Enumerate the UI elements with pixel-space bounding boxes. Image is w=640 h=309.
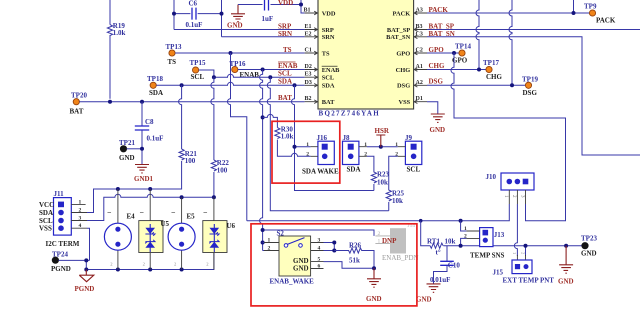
resistor R21 (with SDA term rail): [87, 85, 184, 212]
svg-text:C10: C10: [448, 262, 461, 270]
pin numbers J11: [79, 199, 82, 229]
pin designators U1 right: [416, 8, 423, 103]
junction rail1/E4: [116, 187, 120, 191]
svg-text:4: 4: [318, 246, 321, 252]
junction CHG: [477, 68, 481, 72]
svg-text:5: 5: [318, 257, 321, 263]
svg-text:J13: J13: [494, 231, 505, 239]
svg-text:SDA: SDA: [322, 83, 335, 90]
svg-text:1: 1: [364, 142, 367, 148]
value R26 51k: [349, 242, 362, 265]
wire J11 pin4 to PGND rail: [87, 228, 90, 260]
svg-text:2: 2: [268, 246, 271, 252]
wire SCL drop to R25: [267, 77, 388, 211]
wire SDA drop to J16: [292, 85, 374, 190]
wire TS drop to temp network: [228, 53, 247, 221]
junction TP23 ground: [564, 244, 568, 248]
wire BAT row: [79, 101, 304, 103]
wire ENAB drop to S2: [260, 70, 263, 251]
svg-text:SCL: SCL: [39, 217, 53, 225]
switch S2 (ENAB_WAKE): [277, 229, 311, 276]
svg-text:PGND: PGND: [75, 285, 95, 293]
junction C6 left: [172, 12, 176, 16]
junction S2 pin4: [332, 249, 336, 253]
wire SCL row: [214, 74, 305, 77]
svg-text:100: 100: [185, 157, 196, 165]
svg-text:C6: C6: [189, 0, 198, 8]
svg-text:GPO: GPO: [396, 50, 410, 57]
junction PGND rail left: [84, 268, 88, 272]
wire J15 pin2 riser: [525, 246, 527, 256]
pin numbers J16: [306, 142, 309, 158]
wire BAT_SP row: [427, 29, 640, 31]
wire TP15 jog: [199, 70, 214, 77]
junction SDA drop: [293, 83, 297, 87]
svg-text:GND: GND: [430, 126, 446, 134]
wire S2 pin5 to ground: [324, 262, 375, 269]
wire ENAB row: [238, 69, 305, 71]
value R30 1.0k: [281, 125, 294, 140]
ground GND (S2): [366, 268, 382, 303]
svg-text:TS: TS: [283, 46, 292, 54]
svg-text:TP21: TP21: [119, 139, 135, 147]
svg-text:E5: E5: [187, 213, 196, 221]
svg-text:E1: E1: [305, 24, 312, 30]
junction ENAB drop: [261, 68, 265, 72]
svg-text:TP13: TP13: [166, 43, 182, 51]
svg-text:2: 2: [364, 152, 367, 158]
svg-text:1: 1: [464, 226, 467, 232]
testpoint TP16 (ENAB): [230, 60, 260, 79]
svg-text:SCL: SCL: [407, 165, 421, 173]
svg-text:GND1: GND1: [134, 175, 154, 183]
svg-text:TP14: TP14: [455, 42, 471, 50]
svg-text:BAT: BAT: [278, 94, 292, 102]
pin numbers J13: [464, 226, 467, 239]
junction RT1 tap: [419, 219, 423, 223]
testpoint TP23 (GND): [581, 235, 597, 258]
wire CHG riser (from top): [476, 0, 479, 70]
wire S2 pin1: [263, 242, 266, 244]
svg-text:GND: GND: [558, 278, 574, 286]
svg-text:1.0k: 1.0k: [281, 133, 294, 141]
svg-text:R25: R25: [392, 189, 405, 197]
svg-text:10k: 10k: [445, 237, 456, 245]
svg-text:1: 1: [395, 142, 398, 148]
svg-text:1uF: 1uF: [262, 15, 274, 23]
pin marks E4/U5/E5/U6: [110, 262, 209, 267]
svg-text:–: –: [139, 208, 144, 216]
connector J15 (EXT TEMP): [493, 255, 533, 276]
svg-text:TP16: TP16: [230, 60, 246, 68]
svg-text:VSS: VSS: [39, 225, 52, 233]
wire SRN: [222, 36, 305, 38]
svg-text:TS: TS: [322, 50, 330, 57]
junction J16 pin1 / SDA drop: [293, 145, 297, 149]
wire PGND rail: [86, 253, 214, 270]
pin stubs J13: [466, 231, 479, 238]
junction C6 right: [220, 12, 224, 16]
ground GND (TP23): [558, 246, 574, 286]
svg-text:A3: A3: [416, 8, 423, 14]
svg-text:3: 3: [79, 216, 82, 222]
svg-text:B2: B2: [305, 96, 312, 102]
svg-text:2: 2: [79, 208, 82, 214]
svg-text:TP20: TP20: [71, 91, 87, 99]
svg-text:BAT_SP: BAT_SP: [387, 27, 410, 34]
svg-text:–: –: [203, 208, 208, 216]
value R22 100: [217, 159, 230, 175]
wire ENAB to DNP pin2: [263, 230, 374, 236]
junction J13 pin1: [459, 219, 463, 223]
svg-text:0.01uF: 0.01uF: [430, 276, 450, 284]
testpoint TP9 (PACK): [584, 2, 616, 24]
wire DSG riser (from top): [509, 0, 512, 85]
highlight box SDA WAKE: [272, 121, 340, 183]
wire S2 pin3/pin4 tie: [324, 243, 335, 251]
pin stubs U1 left: [305, 13, 318, 102]
wire DSG row: [427, 84, 525, 86]
pin numbers J8: [364, 142, 367, 158]
svg-text:C2: C2: [416, 48, 423, 54]
svg-text:RT1: RT1: [427, 237, 440, 245]
resistor R25: [386, 156, 398, 211]
junction DSG: [510, 83, 514, 87]
wire TS row: [175, 52, 305, 54]
svg-text:0.1uF: 0.1uF: [147, 135, 164, 143]
junction PGND/E5: [180, 268, 184, 272]
wire J13 pin1: [461, 221, 467, 231]
svg-text:SRN: SRN: [278, 30, 292, 38]
svg-text:1: 1: [268, 238, 271, 244]
testpoint TP13 (TS): [166, 43, 182, 66]
junction TP24/PGND stem: [84, 258, 88, 262]
svg-text:VCC: VCC: [39, 201, 54, 209]
pin stubs S2: [264, 243, 324, 269]
value R25 10k: [392, 189, 405, 205]
capacitor C8: [135, 102, 164, 165]
svg-text:C1: C1: [305, 48, 312, 54]
junction rail1/U5: [148, 187, 152, 191]
wire RT1 row to TP23: [443, 245, 582, 247]
wire J16 pin1: [295, 146, 311, 148]
svg-text:SRN: SRN: [322, 34, 335, 41]
svg-text:GND: GND: [581, 249, 597, 257]
svg-text:R26: R26: [349, 242, 362, 250]
ground GND (C10): [416, 284, 441, 304]
connector J8 (SDA): [343, 134, 359, 164]
wire SDA row: [156, 82, 304, 85]
junction C8/TP21: [140, 147, 144, 151]
J11 side labels: [39, 201, 54, 233]
svg-text:6: 6: [318, 264, 321, 270]
svg-text:TS: TS: [168, 58, 177, 66]
svg-text:U6: U6: [227, 222, 236, 230]
varistor E5: [168, 197, 195, 269]
svg-text:SDA WAKE: SDA WAKE: [302, 168, 339, 176]
svg-text:A1: A1: [416, 64, 423, 70]
svg-text:ENAB_PDN: ENAB_PDN: [382, 254, 419, 262]
junction PGND/U5: [148, 268, 152, 272]
svg-text:2: 2: [306, 152, 309, 158]
svg-text:D3: D3: [305, 80, 312, 86]
svg-text:BAT_SN: BAT_SN: [386, 34, 410, 41]
capacitor C10 0.01uF: [430, 246, 460, 285]
testpoint TP15 (SCL): [190, 59, 206, 81]
svg-text:ENAB: ENAB: [322, 67, 340, 74]
varistor E4: [104, 189, 135, 270]
svg-text:I2C TERM: I2C TERM: [46, 240, 80, 248]
svg-text:VDD: VDD: [322, 10, 336, 17]
wire S2 pin2: [263, 250, 266, 252]
resistor R30: [275, 128, 311, 157]
svg-text:4: 4: [79, 223, 82, 229]
ground GND (VSS): [430, 114, 446, 134]
wire TP24 row: [59, 259, 90, 261]
svg-text:GND: GND: [119, 154, 135, 162]
wire CHG row: [427, 69, 486, 71]
pin numbers J9: [395, 142, 398, 158]
svg-text:TP18: TP18: [147, 75, 163, 83]
svg-text:CHG: CHG: [486, 73, 503, 81]
power symbol PGND: [75, 270, 95, 294]
resistor R22 (with SCL term rail): [87, 77, 217, 220]
junction ENAB/S2 pin1: [261, 241, 265, 245]
svg-text:51k: 51k: [349, 256, 360, 264]
junction BAT/R19: [108, 100, 112, 104]
svg-text:SRP: SRP: [322, 27, 334, 34]
svg-text:0.1uF: 0.1uF: [186, 21, 203, 29]
testpoint TP24 (PGND): [51, 250, 71, 272]
testpoint TP20 (BAT): [70, 91, 88, 115]
svg-text:B1: B1: [304, 8, 311, 14]
junction PGND/E4: [116, 268, 120, 272]
svg-text:PGND: PGND: [51, 265, 71, 273]
pin stubs J11: [71, 204, 87, 228]
svg-text:GND: GND: [293, 264, 309, 272]
svg-text:VDD: VDD: [278, 0, 293, 7]
svg-text:HSR: HSR: [375, 127, 390, 135]
junction PACK/TP9: [572, 11, 576, 15]
TVS U6: [203, 197, 236, 269]
junction GPO: [452, 51, 456, 55]
junction TS drop: [229, 51, 233, 55]
svg-text:BQ27Z746YAH: BQ27Z746YAH: [319, 110, 381, 118]
wire GPO to J10 pin3: [451, 53, 565, 221]
value R19 1.0k: [113, 22, 126, 37]
svg-text:GND: GND: [416, 296, 432, 304]
ground GND (VDD decoupling): [227, 5, 245, 30]
wire TS/thermistor row: [247, 204, 510, 221]
pin names U1 right: [386, 10, 410, 106]
wire GPO row: [427, 52, 459, 54]
connector J16 (SDA WAKE): [317, 134, 335, 165]
svg-text:SCL: SCL: [191, 73, 205, 81]
svg-text:DNP: DNP: [382, 237, 397, 245]
wire VDD to pin B1: [301, 0, 305, 13]
svg-text:BAT: BAT: [322, 99, 335, 106]
gauge IC U1 BQ27Z746YAH body: [318, 0, 414, 109]
svg-text:SCL: SCL: [322, 75, 334, 82]
svg-text:TP15: TP15: [190, 59, 206, 67]
pin stubs J9: [398, 147, 406, 157]
svg-text:D1: D1: [416, 96, 423, 102]
svg-text:3: 3: [318, 238, 321, 244]
capacitor C6: [174, 0, 222, 29]
value R23 10k: [377, 170, 390, 186]
svg-text:DSG: DSG: [429, 78, 444, 86]
junction HSR: [379, 145, 383, 149]
svg-text:R23: R23: [377, 170, 390, 178]
svg-text:GND: GND: [227, 22, 243, 30]
wire TP21 to C8 leg: [127, 148, 142, 150]
testpoint TP19 (DSG): [522, 75, 538, 97]
svg-text:1: 1: [378, 239, 381, 245]
junction rail2/R22/U6: [212, 195, 216, 199]
junction R26/pin5/ground: [372, 266, 376, 270]
junction ENAB/DNP feed: [261, 228, 265, 232]
pin marks J15: [512, 252, 526, 255]
svg-text:PACK: PACK: [596, 16, 616, 24]
junction S2 pin3: [332, 241, 336, 245]
pin clamps U1 right: [414, 11, 417, 103]
svg-text:E4: E4: [127, 213, 136, 221]
svg-text:TP17: TP17: [483, 59, 499, 67]
pin stubs J16: [311, 147, 318, 157]
svg-text:E2: E2: [305, 31, 312, 37]
connector J11 (I2C TERM): [54, 190, 72, 235]
testpoint TP18 (SDA): [147, 75, 163, 97]
resistor R19: [107, 0, 112, 99]
svg-text:D2: D2: [305, 64, 312, 70]
wire SRP: [174, 29, 305, 31]
svg-text:10k: 10k: [377, 178, 388, 186]
svg-text:SDA: SDA: [39, 209, 53, 217]
svg-text:U5: U5: [161, 220, 170, 228]
wire C6 left leg to SRP: [173, 0, 175, 30]
wire C6 right leg to SRN: [221, 0, 223, 37]
thermistor RT1 10k: [421, 221, 456, 257]
junction BAT/C8: [140, 100, 144, 104]
svg-text:EXT TEMP PNT: EXT TEMP PNT: [503, 277, 555, 285]
svg-text:SDA: SDA: [149, 89, 163, 97]
svg-text:2: 2: [464, 234, 467, 240]
junction SCL/R22: [212, 75, 216, 79]
svg-text:1.0k: 1.0k: [113, 29, 126, 37]
svg-text:E3: E3: [305, 72, 312, 78]
TVS U5: [139, 189, 170, 270]
wire PACK row: [427, 12, 589, 14]
svg-text:J15: J15: [493, 268, 504, 276]
svg-text:J11: J11: [54, 190, 65, 198]
resistor R23: [367, 156, 377, 190]
testpoint TP21 (GND): [119, 139, 135, 162]
svg-text:PACK: PACK: [393, 10, 411, 17]
wire PACK riser (to top): [573, 0, 575, 13]
power port HSR: [375, 127, 390, 147]
pin numbers J10 (rotated): [503, 195, 525, 198]
pin names U1 left: [322, 10, 340, 106]
wire J10 pin2 to J15 pin1: [514, 204, 517, 256]
pin stubs U1 right: [414, 13, 427, 102]
svg-text:SDA: SDA: [278, 78, 292, 86]
svg-text:100: 100: [217, 166, 228, 174]
junction J15 pin2 / RT1 row: [524, 244, 528, 248]
pin stubs J8: [359, 147, 367, 157]
svg-text:GND: GND: [366, 295, 382, 303]
pin numbers S2: [268, 238, 321, 270]
testpoint TP17 (CHG): [483, 59, 503, 81]
svg-text:VSS: VSS: [398, 99, 410, 106]
svg-text:10k: 10k: [392, 197, 403, 205]
svg-text:ENAB: ENAB: [278, 62, 298, 70]
junction J13 pin2 / RT1 row: [459, 244, 463, 248]
svg-text:2: 2: [378, 231, 381, 237]
svg-text:J10: J10: [486, 173, 497, 181]
wire VSS to ground: [427, 102, 438, 114]
svg-text:–: –: [171, 208, 176, 216]
svg-text:CHG: CHG: [429, 62, 446, 70]
svg-text:1: 1: [79, 199, 82, 205]
connector J10 (temp select): [486, 173, 535, 190]
svg-text:CHG: CHG: [396, 67, 411, 74]
testpoint TP14 (GPO): [452, 42, 471, 64]
svg-text:ENAB_WAKE: ENAB_WAKE: [270, 278, 315, 286]
svg-text:C8: C8: [145, 118, 154, 126]
svg-text:–: –: [107, 208, 112, 216]
wire R30 feed: [263, 114, 278, 127]
svg-text:B3: B3: [416, 24, 423, 30]
svg-text:DSG: DSG: [523, 89, 538, 97]
pin clamps U1 left: [314, 11, 317, 103]
svg-text:TP23: TP23: [581, 235, 597, 243]
svg-text:t°: t°: [436, 249, 441, 257]
connector J9 (SCL): [405, 134, 422, 164]
svg-text:TP9: TP9: [584, 2, 597, 10]
svg-text:TEMP SNS: TEMP SNS: [470, 252, 505, 260]
junction VDD: [299, 3, 303, 7]
junction SDA/R21: [180, 83, 184, 87]
resistor R26: [334, 248, 374, 268]
wire BAT_SN row: [427, 37, 640, 155]
pin designators U1 left: [304, 8, 312, 103]
svg-text:A2: A2: [416, 80, 423, 86]
junction SCL drop: [268, 75, 272, 79]
wire J13 pin2: [461, 238, 467, 245]
svg-text:C3: C3: [416, 31, 423, 37]
svg-text:BAT: BAT: [70, 108, 84, 116]
junction rail2/E5: [180, 195, 184, 199]
ground GND1: [134, 165, 154, 184]
connector J14 DNP (ENAB_PDN): [375, 223, 418, 262]
svg-text:DSG: DSG: [397, 83, 410, 90]
junction ENAB/R30 tap: [261, 115, 265, 119]
connector J13 (TEMP SNS): [480, 228, 505, 247]
svg-text:1: 1: [306, 142, 309, 148]
value R21 100: [185, 150, 198, 165]
highlight box ENAB_WAKE: [251, 224, 417, 306]
net label ENAB (with overbar): [278, 62, 298, 70]
svg-text:SDA: SDA: [347, 165, 361, 173]
wire HSR pullup row: [367, 146, 398, 148]
capacitor C7 1uF (VDD): [238, 0, 301, 23]
svg-text:SCL: SCL: [278, 70, 292, 78]
pin stubs J10: [509, 190, 525, 204]
